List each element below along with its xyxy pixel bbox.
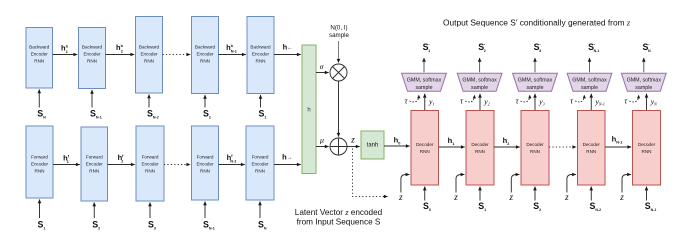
svg-text:sample: sample [415,85,432,91]
wire h f1 to f2 [53,164,80,166]
svg-text:RNN: RNN [34,58,44,63]
svg-text:Decoder: Decoder [583,142,601,147]
svg-text:z: z [350,134,355,144]
svg-text:RNN: RNN [256,58,266,63]
wire S input to backward box 4 [204,95,206,108]
wire dashed tau into GMM 3 [521,95,530,102]
svg-text:z: z [564,192,569,202]
svg-text:Encoder: Encoder [196,51,214,56]
wire h b1 to b2 [53,54,78,56]
wire GMM 3 to S' output [534,58,536,72]
svg-text:Encoder: Encoder [31,51,49,56]
wire dashed tau into GMM 5 [629,95,638,102]
wire S input to decoder 5 [646,187,648,201]
wire S input to backward box 5 [260,95,262,108]
decoder RNN box 5 [633,111,661,186]
wire GMM 4 to S' output [589,58,591,72]
wire h-right f5 to latent h [274,164,301,166]
svg-text:h: h [307,108,310,114]
wire z curved input to decoder 3 [511,175,519,193]
wire sigma from h to multiply node [316,72,329,74]
forward encoder RNN box 4 [192,126,219,200]
svg-text:Encoder: Encoder [141,162,159,167]
svg-text:Decoder: Decoder [471,142,489,147]
svg-text:N(0, I): N(0, I) [330,25,347,32]
backward encoder RNN box 3 [136,17,163,94]
svg-text:z: z [398,192,403,202]
decoder RNN box 2 [466,111,494,186]
wire h1 d1 to d2 [439,146,465,148]
svg-text:Encoder: Encoder [252,51,270,56]
wire hN-1 d4 to d5 [605,146,631,148]
wire S input to backward box 2 [91,90,93,108]
wire z curved input to decoder 4 [567,175,576,193]
svg-text:Backward: Backward [250,44,271,49]
wire GMM 2 to S' output [479,58,481,72]
decoder RNN box 3 [521,111,549,186]
wire S input to forward box 3 [149,203,151,219]
forward encoder RNN box 3 [136,126,164,201]
wire S input to forward box 2 [93,203,95,219]
svg-text:S′1: S′1 [423,42,430,53]
svg-text:Forward: Forward [142,155,159,160]
tanh box [361,131,384,159]
svg-text:RNN: RNN [89,169,99,174]
svg-text:Forward: Forward [197,155,214,160]
wire h b2 to b3 [106,54,135,56]
svg-text:RNN: RNN [145,169,155,174]
wire z curved input to decoder 5 [622,175,631,193]
svg-text:Decoder: Decoder [526,142,544,147]
add node circle [330,138,347,155]
wire S input to decoder 1 [424,187,426,201]
wire mu from h to add node [316,146,329,148]
svg-text:GMM, softmax: GMM, softmax [518,78,553,84]
svg-text:from Input Sequence S: from Input Sequence S [297,218,381,227]
svg-text:RNN: RNN [475,149,485,154]
svg-text:RNN: RNN [642,149,652,154]
svg-text:RNN: RNN [530,149,540,154]
svg-text:Encoder: Encoder [196,162,214,167]
wire h f2 to f3 [108,164,135,166]
wire S input to backward box 1 [38,90,40,108]
backward encoder RNN box 1 [26,28,53,89]
svg-text:μ: μ [320,136,324,145]
wire S input to forward box 1 [39,200,41,219]
wire GMM 5 to S' output [643,58,645,72]
svg-text:Backward: Backward [29,44,50,49]
wire dotted b3 to b4 [163,54,191,56]
forward encoder RNN box 5 [246,126,274,200]
wire S input to decoder 4 [590,187,592,201]
svg-text:RNN: RNN [87,58,97,63]
svg-text:Encoder: Encoder [83,51,101,56]
wire z curved input to decoder 2 [456,175,464,193]
svg-text:Encoder: Encoder [31,162,49,167]
wire dashed tau into GMM 1 [410,95,419,102]
svg-text:Forward: Forward [86,155,103,160]
backward encoder RNN box 2 [79,28,106,89]
svg-text:z: z [453,192,458,202]
svg-text:S′2: S′2 [478,42,485,53]
GMM softmax sample trapezoid 5 [621,73,666,91]
wire S input to decoder 3 [534,187,536,201]
multiply node circle [330,64,347,81]
svg-text:RNN: RNN [420,149,430,154]
forward encoder RNN box 1 [26,126,53,198]
svg-text:sample: sample [581,85,598,91]
backward encoder RNN box 4 [192,17,219,94]
wire h f4 to f5 [219,164,245,166]
svg-text:Encoder: Encoder [140,51,158,56]
svg-text:z: z [619,192,624,202]
svg-text:RNN: RNN [144,58,154,63]
svg-text:RNN: RNN [255,169,265,174]
wire z from add node to tanh [347,146,360,148]
wire h b4 to b5 [219,54,246,56]
latent hidden state h box [302,45,316,174]
svg-text:RNN: RNN [200,58,210,63]
GMM softmax sample trapezoid 2 [457,73,502,91]
svg-text:Latent Vector z encoded: Latent Vector z encoded [295,208,383,217]
svg-text:RNN: RNN [586,149,596,154]
wire dotted f3 to f4 [164,164,190,166]
svg-text:GMM, softmax: GMM, softmax [572,78,607,84]
svg-text:GMM, softmax: GMM, softmax [407,78,442,84]
GMM softmax sample trapezoid 4 [567,73,612,91]
svg-text:Encoder: Encoder [251,162,269,167]
svg-text:sample: sample [526,85,543,91]
wire y_N decoder 5 to GMM [646,94,648,110]
svg-text:sample: sample [471,85,488,91]
wire S input to forward box 4 [204,202,206,219]
svg-text:Backward: Backward [139,44,160,49]
svg-text:RNN: RNN [200,169,210,174]
GMM softmax sample trapezoid 3 [513,73,558,91]
wire S input to backward box 3 [148,95,150,108]
svg-text:tanh: tanh [367,143,379,149]
svg-text:GMM, softmax: GMM, softmax [627,78,662,84]
svg-text:Backward: Backward [195,44,216,49]
svg-text:S′3: S′3 [534,42,541,53]
svg-text:Decoder: Decoder [638,142,656,147]
svg-text:sample: sample [329,32,350,39]
wire S input to decoder 2 [479,187,481,201]
svg-text:sample: sample [635,85,652,91]
wire N(0,I) sample into multiply node [338,41,340,63]
svg-text:Forward: Forward [31,155,48,160]
svg-text:Forward: Forward [252,155,269,160]
wire y_2 decoder 2 to GMM [479,94,481,110]
svg-text:GMM, softmax: GMM, softmax [462,78,497,84]
wire GMM 1 to S' output [423,58,425,72]
backward encoder RNN box 5 [247,17,274,94]
wire z curved input to decoder 1 [401,175,410,193]
svg-text:Output Sequence S′ conditional: Output Sequence S′ conditionally generat… [443,17,631,27]
svg-text:RNN: RNN [35,169,45,174]
decoder RNN box 4 [578,111,606,186]
wire y_3 decoder 3 to GMM [534,94,536,110]
wire dashed tau into GMM 2 [465,95,474,102]
wire h2 d2 to d3 [494,146,520,148]
svg-text:z: z [509,192,514,202]
forward encoder RNN box 2 [81,127,108,201]
wire dashed tau into GMM 4 [575,95,584,102]
wire S input to forward box 5 [259,202,261,219]
svg-text:Decoder: Decoder [416,142,434,147]
wire dotted d3 to d4 [549,146,576,148]
wire h-left b5 to latent h [274,54,301,56]
decoder RNN box 1 [411,111,439,186]
wire multiply node to add node [338,81,340,137]
wire y_1 decoder 1 to GMM [424,94,426,110]
svg-text:Backward: Backward [82,44,103,49]
wire y_N-1 decoder 4 to GMM [590,94,592,110]
svg-text:Encoder: Encoder [86,162,104,167]
GMM softmax sample trapezoid 1 [402,73,447,91]
wire h0 tanh to decoder 1 [384,145,410,147]
wire dotted z to decoders [353,149,388,197]
